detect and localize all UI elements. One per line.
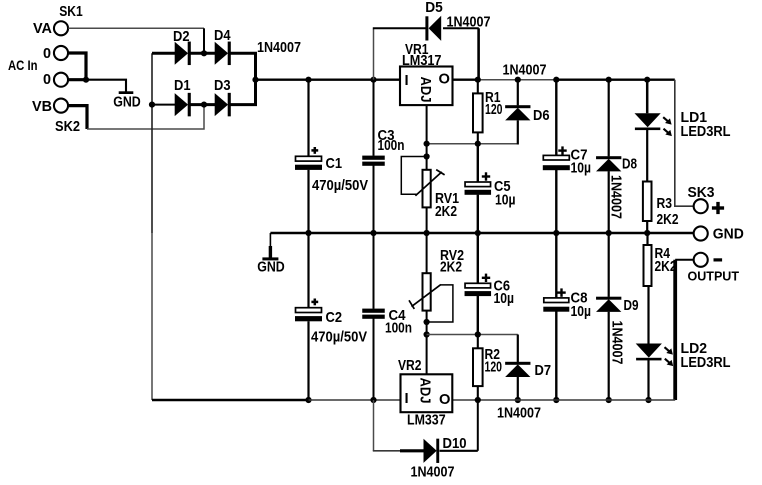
capacitor C1: [296, 156, 322, 161]
wire to GND symbol: [86, 80, 126, 92]
svg-text:10µ: 10µ: [495, 193, 516, 209]
wire D6 bottom: [517, 120, 519, 144]
junction ADJ2/RV2: [424, 331, 430, 337]
wire ADJ1 node line: [427, 143, 518, 145]
wire C8 top: [555, 233, 557, 298]
potentiometer RV1 body: [423, 170, 431, 208]
diode D1: [175, 93, 188, 116]
svg-text:VB: VB: [32, 99, 52, 115]
terminal GND out: [694, 226, 708, 240]
ground GND2: [269, 233, 271, 247]
junction -rail C4/D10: [370, 397, 376, 403]
capacitor C7: [543, 155, 569, 160]
junction +rail VR1 input: [370, 77, 376, 83]
svg-text:1N4007: 1N4007: [497, 406, 541, 422]
LED LD1: [635, 113, 661, 127]
junction +rail D8: [606, 77, 612, 83]
capacitor C5 polarity +: [482, 175, 490, 177]
junction +rail bridge: [252, 77, 258, 83]
wire C1 bottom: [307, 170, 309, 233]
junction mid D8: [606, 230, 612, 236]
wire D3 cathode to +rail: [229, 80, 256, 105]
wire R4 top: [646, 233, 648, 245]
svg-text:D7: D7: [535, 363, 552, 379]
wire C1 top: [307, 80, 309, 157]
capacitor C4: [362, 309, 385, 313]
junction mid C3: [370, 230, 376, 236]
junction -rail LD2: [645, 397, 651, 403]
svg-text:1N4007: 1N4007: [411, 465, 455, 481]
resistor R1: [473, 93, 483, 132]
wire SK2 to bridge mid: [87, 105, 204, 129]
LED LD2: [636, 344, 662, 358]
diode D4: [215, 42, 228, 65]
capacitor C2 polarity +: [311, 301, 318, 304]
wire D10 left leg: [373, 400, 375, 451]
svg-text:R3: R3: [657, 196, 673, 212]
wire D5 right leg: [477, 28, 480, 79]
terminal AC 0 upper: [54, 46, 68, 60]
junction RV1 wiper tie: [424, 153, 430, 159]
svg-text:SK2: SK2: [55, 119, 80, 135]
junction ADJ2 C6/R2: [475, 331, 481, 337]
wire C7 bottom: [555, 170, 557, 233]
capacitor C3: [362, 156, 385, 160]
svg-text:120: 120: [485, 102, 503, 118]
wire LD1 to R3: [646, 130, 648, 182]
wire C8 bottom: [555, 311, 557, 400]
svg-text:10µ: 10µ: [494, 291, 515, 307]
diode D7: [505, 362, 530, 365]
wire bridge left vertical: [151, 53, 153, 233]
svg-text:O: O: [439, 392, 450, 408]
wire D9 top: [608, 233, 610, 297]
junction -rail VR2 out: [475, 397, 481, 403]
svg-text:LED3RL: LED3RL: [681, 124, 731, 140]
wire R1 bottom: [477, 132, 479, 143]
junction mid C1: [305, 230, 311, 236]
wire VR1 adj pin: [426, 105, 428, 144]
wire C3 top: [373, 80, 375, 156]
svg-text:ADJ: ADJ: [417, 378, 433, 404]
wire R4 to LD2: [647, 286, 649, 344]
junction +rail R1: [475, 77, 481, 83]
svg-text:470µ/50V: 470µ/50V: [312, 178, 368, 194]
svg-text:I: I: [405, 73, 409, 89]
wire positive rail: [256, 79, 401, 81]
capacitor C7 polarity +: [558, 149, 566, 151]
junction +rail D6: [515, 77, 521, 83]
wire D8 bottom: [608, 171, 610, 233]
terminal VB (SK2): [54, 99, 68, 113]
wire RV1 bottom: [426, 207, 428, 233]
junction -rail C2: [305, 397, 311, 403]
junction bridge left lower: [149, 102, 155, 108]
junction -rail D9: [606, 397, 612, 403]
wire D6 top: [517, 80, 519, 106]
wire D10 right: [440, 450, 478, 452]
junction +rail C1: [305, 77, 311, 83]
wire R2 bottom: [477, 386, 479, 400]
wire C2 top: [307, 233, 309, 308]
diode D8: [596, 156, 621, 159]
wire VB stub: [68, 106, 87, 129]
wire C4 top: [373, 233, 375, 309]
wire RV2 top: [426, 233, 428, 273]
LED LD1 arrows: [663, 117, 669, 122]
terminal minus: [694, 253, 708, 267]
svg-text:2K2: 2K2: [655, 259, 677, 275]
capacitor C2: [296, 308, 322, 313]
wire RV1 top: [426, 144, 428, 170]
wire R3 bottom: [646, 221, 648, 233]
wire C7 top: [555, 80, 557, 156]
svg-text:0: 0: [43, 72, 51, 88]
svg-text:GND: GND: [713, 227, 744, 243]
wire D7 bottom: [517, 377, 519, 400]
svg-text:2K2: 2K2: [435, 204, 457, 220]
svg-text:D3: D3: [214, 78, 231, 94]
svg-text:C1: C1: [326, 156, 343, 172]
svg-text:VA: VA: [33, 21, 53, 37]
svg-text:120: 120: [485, 360, 503, 376]
resistor R4: [644, 245, 652, 286]
svg-text:C2: C2: [326, 310, 343, 326]
svg-text:VR2: VR2: [398, 358, 422, 374]
svg-text:D5: D5: [425, 0, 443, 16]
wire VA to bridge node: [68, 27, 204, 29]
wire R2 top: [477, 335, 479, 349]
svg-text:ADJ: ADJ: [417, 77, 433, 103]
potentiometer RV2 wiper arrow: [412, 285, 441, 307]
wire C4 bottom: [373, 319, 375, 401]
potentiometer RV1 wiper arrow: [415, 172, 441, 196]
diode D5 (points left): [425, 16, 428, 40]
svg-text:D10: D10: [443, 436, 467, 452]
wire D5 top left: [373, 27, 426, 29]
svg-text:100n: 100n: [385, 321, 412, 337]
wire negative rail right: [309, 399, 401, 401]
wire D7 top: [517, 335, 519, 363]
label plus sign: [712, 206, 724, 209]
wire C3 bottom: [373, 166, 375, 234]
junction RV2 wiper tie: [424, 319, 430, 325]
svg-text:D8: D8: [622, 157, 637, 173]
wire negative rail left: [152, 399, 309, 401]
wire D9 bottom: [608, 312, 610, 400]
wire mid GND rail: [270, 232, 693, 235]
wire RV2 wiper bracket: [427, 285, 453, 322]
svg-text:LM337: LM337: [407, 413, 446, 429]
svg-text:1N4007: 1N4007: [257, 40, 301, 56]
wire D5 top right: [443, 27, 479, 29]
wire minus terminal to -rail: [675, 259, 693, 261]
svg-text:D1: D1: [174, 78, 191, 94]
wire C5 bottom: [477, 195, 479, 233]
capacitor C8: [544, 298, 569, 303]
wire C5 top: [477, 144, 479, 183]
svg-text:10µ: 10µ: [571, 161, 592, 177]
wire RV1 wiper bracket: [401, 157, 426, 195]
resistor R3: [643, 182, 652, 222]
junction ADJ1 C5: [475, 141, 481, 147]
junction +rail C7: [553, 77, 559, 83]
wire D4 cathode to +rail corner: [229, 53, 256, 79]
capacitor C5: [465, 182, 491, 187]
svg-text:D9: D9: [624, 298, 639, 314]
junction mid C5: [475, 230, 481, 236]
junction mid RV1: [424, 230, 430, 236]
wire RV2 bottom: [426, 311, 428, 375]
svg-text:2K2: 2K2: [440, 260, 462, 276]
terminal plus: [694, 199, 708, 213]
svg-text:D4: D4: [214, 28, 231, 44]
wire VA drop to bridge: [203, 28, 205, 53]
svg-text:I: I: [405, 391, 409, 407]
svg-text:O: O: [439, 72, 450, 88]
svg-text:SK1: SK1: [59, 4, 83, 20]
label minus sign: [714, 258, 723, 261]
svg-text:1N4007: 1N4007: [503, 63, 547, 79]
diode D2: [175, 42, 188, 65]
wire D10 right leg: [477, 400, 479, 451]
potentiometer RV2 body: [423, 273, 431, 310]
wire D8 top: [608, 80, 610, 157]
svg-text:2K2: 2K2: [657, 212, 679, 228]
wire C6 top: [477, 233, 479, 284]
wire R1 top: [477, 80, 479, 94]
diode D6: [505, 105, 530, 108]
wire +rail to plus terminal: [675, 80, 693, 207]
svg-text:D2: D2: [173, 29, 190, 45]
svg-text:OUTPUT: OUTPUT: [688, 269, 740, 284]
wire AC upper stub: [68, 53, 86, 80]
diode D10: [424, 439, 437, 463]
svg-text:100n: 100n: [378, 138, 405, 154]
svg-text:GND: GND: [113, 95, 141, 111]
svg-text:D6: D6: [533, 108, 550, 124]
wire D5 left leg: [373, 29, 375, 80]
svg-text:10µ: 10µ: [571, 304, 592, 320]
wire D2-D4: [189, 52, 215, 55]
regulator VR2 LM337 box: [401, 374, 453, 412]
junction D1/D3: [201, 102, 207, 108]
wire C6 bottom: [477, 296, 479, 335]
junction AC common: [83, 77, 89, 83]
junction mid C7: [553, 230, 559, 236]
junction mid R3: [644, 230, 650, 236]
capacitor C6 polarity +: [482, 277, 490, 279]
wire D2 anode: [152, 52, 175, 55]
capacitor C8 polarity +: [557, 291, 565, 293]
diode D9: [596, 297, 621, 300]
junction +rail LD1: [644, 77, 650, 83]
junction -rail D7: [515, 397, 521, 403]
junction D2/D4: [201, 50, 207, 56]
regulator VR1 LM317 box: [400, 67, 453, 106]
wire D1-D3: [189, 103, 215, 106]
svg-text:470µ/50V: 470µ/50V: [311, 330, 367, 346]
svg-text:0: 0: [43, 46, 51, 62]
terminal AC 0 lower: [54, 73, 68, 87]
wire ADJ2 node line: [427, 334, 518, 336]
wire C2 bottom: [307, 321, 309, 400]
capacitor C1 polarity +: [311, 149, 318, 152]
wire D10 left: [373, 450, 403, 452]
terminal VA (SK1): [54, 21, 68, 35]
svg-text:LED3RL: LED3RL: [681, 355, 731, 371]
LED LD2 arrows: [665, 347, 671, 352]
capacitor C6: [465, 283, 491, 288]
wire LD2 bottom: [647, 360, 649, 400]
resistor R2: [473, 348, 483, 386]
svg-text:AC In: AC In: [8, 58, 38, 73]
wire LD1 top: [646, 80, 649, 114]
diode D3: [215, 93, 228, 116]
wire D1 anode: [152, 104, 175, 106]
wire AC lower stub: [68, 78, 86, 81]
svg-text:GND: GND: [257, 260, 285, 276]
junction -rail C8: [553, 397, 559, 403]
ground GND1: [119, 91, 134, 94]
svg-text:1N4007: 1N4007: [608, 321, 624, 365]
junction ADJ1/RV1: [424, 141, 430, 147]
